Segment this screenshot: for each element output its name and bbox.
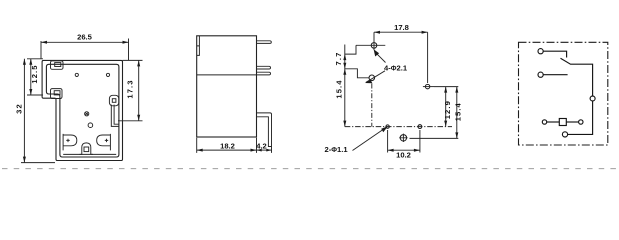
node pin circle (590, 96, 595, 101)
dim 18.2 line (197, 149, 257, 151)
svg-text:12.5: 12.5 (30, 64, 39, 83)
terminal NO (538, 72, 543, 77)
dim 17.8 line (374, 31, 428, 33)
svg-text:17.8: 17.8 (394, 23, 409, 32)
dim 32 line (21, 59, 55, 163)
pin 2 (54, 91, 60, 95)
dim 4.2 extension (271, 147, 273, 153)
svg-text:17.3: 17.3 (126, 79, 135, 98)
left vent notch (197, 36, 200, 56)
horizontal centerline (345, 126, 452, 128)
wire NC (543, 51, 566, 57)
page fold dashed line (2, 168, 619, 170)
small hole top-right (106, 73, 109, 76)
extension from hole D (410, 137, 459, 139)
coil wire left (547, 121, 560, 123)
dim 12.9 line (445, 87, 447, 127)
svg-text:15.4: 15.4 (334, 79, 343, 98)
pin 5 cross (105, 139, 108, 142)
bottom bent pin (257, 113, 272, 147)
body (197, 36, 257, 137)
pin slot bottom-center omega (80, 143, 93, 155)
svg-text:26.5: 26.5 (77, 33, 93, 42)
dim 18.2 extensions (197, 138, 257, 153)
dim 26.5 extension lines (41, 39, 129, 61)
round hole center (88, 123, 93, 128)
hole B (425, 84, 429, 88)
wire NO (543, 74, 567, 76)
svg-text:12.9: 12.9 (443, 100, 452, 119)
hole F (418, 125, 422, 129)
svg-text:4.2: 4.2 (256, 141, 267, 150)
outline inner (46, 64, 119, 157)
pin slot right (109, 95, 118, 106)
dim 10.2 line (388, 149, 420, 151)
svg-text:10.2: 10.2 (396, 151, 411, 160)
pin tab 2 (257, 66, 271, 69)
leader arrow to hole A (375, 52, 386, 63)
extension to hole A (373, 32, 375, 50)
dim 17.3 line (138, 60, 140, 120)
svg-text:18.2: 18.2 (220, 141, 235, 150)
pin 4 cross (66, 139, 69, 142)
terminal COM (562, 132, 567, 137)
vertical centerline through hole C (371, 84, 373, 127)
coil terminal right (579, 120, 583, 124)
small hole top-left (75, 73, 78, 76)
dim 26.5 line (41, 41, 129, 43)
dim 7.7 / 15.4 line (344, 45, 346, 127)
jogged extension to hole C (345, 69, 369, 78)
pin tab 3 (257, 72, 271, 75)
pin tab 1 (257, 41, 272, 44)
dim 4.2 line (257, 149, 272, 151)
svg-text:32: 32 (14, 103, 23, 114)
dim 17.3 extensions (118, 60, 143, 120)
pin slot top-left 2 (51, 89, 63, 99)
outline outer (42, 60, 122, 160)
pin 1 (55, 63, 61, 67)
armature contact (561, 58, 593, 96)
svg-text:4-Φ2.1: 4-Φ2.1 (384, 64, 408, 73)
coil body (559, 119, 566, 126)
dim 15.4 right line (456, 87, 458, 139)
case split line (197, 74, 257, 76)
terminal NC (538, 49, 543, 54)
svg-text:2-Φ1.1: 2-Φ1.1 (325, 145, 349, 154)
hole E (386, 125, 389, 128)
extension to hole B (427, 32, 429, 83)
leader arrow through hole C (366, 71, 385, 83)
boss circle with cross (85, 112, 89, 116)
pin slot bottom-right (97, 134, 111, 151)
hole D (400, 135, 406, 141)
coil terminal left (542, 120, 546, 124)
cavity floor line (63, 153, 116, 155)
extension from hole B (434, 86, 458, 88)
dim 12.5 extensions (27, 59, 43, 95)
pin 6 (84, 147, 89, 152)
dash-dot border (519, 42, 608, 145)
coil wire right (566, 121, 578, 123)
dim 12.5 line (30, 59, 32, 95)
pin channel below right slot (111, 105, 119, 127)
pin slot top-left 1 (51, 61, 64, 69)
svg-text:15.4: 15.4 (454, 102, 463, 121)
pin 3 (112, 99, 116, 103)
leader arrow to hole E (353, 129, 385, 151)
dim 10.2 extensions (388, 130, 420, 153)
wire common down (568, 101, 593, 134)
pin slot bottom-left (63, 134, 77, 151)
hole C (369, 75, 375, 81)
svg-text:7.7: 7.7 (334, 52, 343, 66)
hole A (371, 43, 377, 49)
